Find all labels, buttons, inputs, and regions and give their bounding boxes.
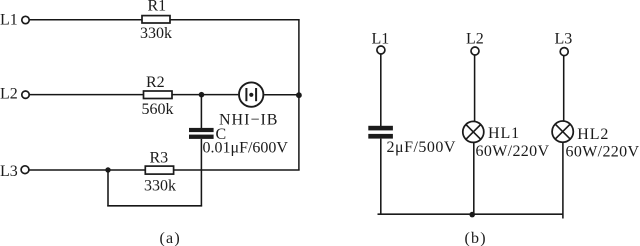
wire R1 to right rail [170, 19, 300, 21]
svg-text:L2: L2 [466, 31, 484, 48]
svg-text:0.01μF/600V: 0.01μF/600V [203, 139, 289, 156]
svg-text:330k: 330k [144, 178, 176, 195]
neon lamp NHI-IB [239, 82, 263, 106]
terminal L2 (b) [471, 47, 479, 55]
svg-text:60W/220V: 60W/220V [566, 144, 640, 161]
wire L3 down to HL2 [563, 56, 565, 121]
terminal L1 (b) [377, 46, 385, 54]
wire loop left vertical [107, 170, 109, 207]
wire C top lead [200, 95, 202, 128]
resistor R1 [142, 16, 170, 23]
wire L1 to R1 [29, 19, 142, 21]
junction node bus-L2 [469, 212, 475, 218]
svg-text:HL2: HL2 [577, 126, 609, 143]
svg-text:NHI−IB: NHI−IB [219, 112, 278, 129]
wire L1 down to C2 [380, 54, 382, 126]
wire neon lamp to right rail [264, 94, 299, 96]
svg-text:60W/220V: 60W/220V [476, 143, 550, 160]
wire loop bottom horizontal [107, 205, 202, 207]
wire L2 to R2 [29, 94, 143, 96]
svg-text:L3: L3 [0, 163, 18, 180]
resistor R2 [144, 91, 173, 99]
svg-text:330k: 330k [140, 25, 172, 42]
svg-text:560k: 560k [142, 101, 174, 118]
svg-text:(a): (a) [160, 230, 181, 246]
wire right rail [298, 19, 300, 171]
svg-text:L1: L1 [372, 31, 390, 48]
resistor R3 [145, 166, 173, 174]
capacitor C2 [368, 126, 393, 139]
terminal L3 [21, 166, 29, 174]
svg-text:HL1: HL1 [488, 125, 520, 142]
svg-text:R1: R1 [148, 0, 167, 15]
junction node L3-loop [105, 167, 110, 172]
wire HL1 to bus [473, 143, 475, 215]
capacitor C [189, 128, 214, 139]
wire R2 to neon lamp [172, 94, 238, 96]
svg-text:L2: L2 [0, 86, 18, 103]
lamp HL1 [463, 121, 484, 142]
svg-text:L1: L1 [0, 12, 18, 29]
wire L2 down to HL1 [474, 55, 476, 121]
svg-text:2μF/500V: 2μF/500V [387, 139, 456, 156]
wire HL2 to bus [562, 143, 564, 219]
terminal L1 [22, 16, 29, 23]
svg-text:R3: R3 [150, 150, 169, 167]
wire bottom bus [378, 213, 564, 215]
wire L3 to R3 [29, 169, 145, 171]
svg-text:(b): (b) [465, 230, 487, 246]
wire R3 to right rail [174, 169, 300, 171]
svg-text:R2: R2 [146, 74, 165, 91]
svg-text:L3: L3 [555, 31, 573, 48]
lamp HL2 [552, 121, 573, 142]
terminal L2 [22, 91, 29, 98]
junction node L2-C [199, 92, 205, 98]
terminal L3 (b) [560, 48, 568, 56]
junction node lamp-rail [296, 92, 302, 98]
wire C2 to bus [380, 139, 382, 215]
wire C bottom lead [200, 139, 202, 207]
